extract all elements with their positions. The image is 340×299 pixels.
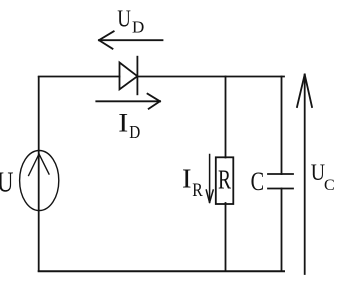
svg-text:I: I [118,108,128,137]
capacitor C plates [268,174,293,189]
wire resistor branch bottom [225,203,227,271]
label R (resistor) [218,165,231,195]
svg-text:C: C [251,167,265,196]
wire top right segment [137,76,284,78]
label U_C [311,160,335,194]
svg-text:U: U [311,160,325,185]
label C (capacitor) [251,167,265,196]
arrow U_D (points left) [99,31,163,48]
svg-text:I: I [182,163,192,193]
wire capacitor branch top [281,77,283,175]
svg-text:R: R [218,165,231,195]
label I_D [118,108,140,142]
wire capacitor branch bottom [281,189,283,272]
arrow I_D (points right) [96,94,160,109]
svg-text:C: C [324,177,335,194]
svg-text:D: D [132,18,144,37]
arrow U_C (points up) [297,75,312,275]
diode D1 [120,57,138,95]
wire bottom horizontal [39,270,284,272]
label U_D [117,6,144,36]
label I_R [182,163,203,201]
label U (source) [0,168,14,199]
wire resistor branch top [225,77,227,158]
svg-text:U: U [117,6,131,32]
svg-text:U: U [0,168,14,199]
voltage source U [20,151,59,211]
svg-text:D: D [129,122,140,142]
resistor R body [216,157,234,204]
arrow I_R (points down) [206,155,213,203]
wire top left segment [39,76,120,78]
svg-text:R: R [192,180,203,201]
wire left vertical [38,77,40,271]
